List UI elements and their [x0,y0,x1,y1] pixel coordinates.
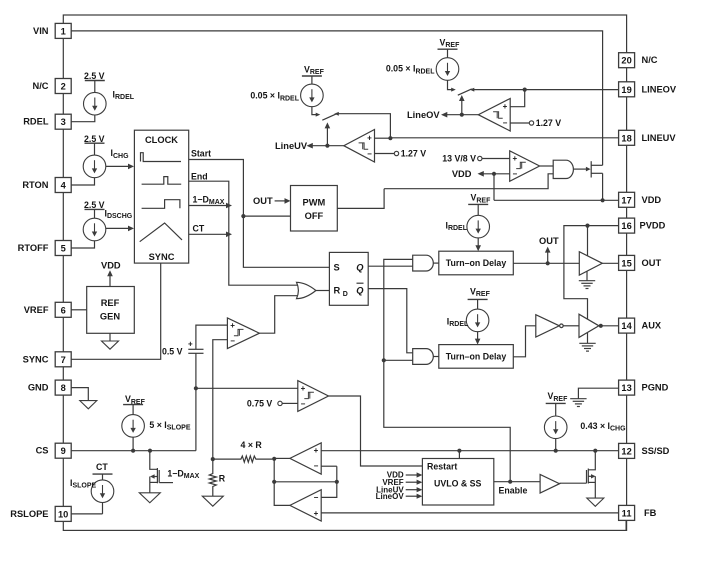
clock waveform start pulse [141,153,182,162]
pin 6 VREF [24,302,71,317]
wire LineOV comparator output [444,114,478,116]
svg-text:SYNC: SYNC [149,252,175,262]
wire ICHG arrow into CLOCK [106,164,134,170]
svg-text:−: − [503,119,508,128]
wire CT stub arrow [189,232,232,238]
svg-text:IDSCHG: IDSCHG [105,208,133,219]
wire UVLO top to SS/SD net [458,451,460,459]
wire Turn-on Delay 1 output to OUT driver [513,262,579,264]
switch for LineUV hysteresis current [312,107,339,121]
current source 0.05 x IRDEL (VREF) for LineOV [386,38,460,81]
UVLO & SS block [422,459,493,506]
svg-text:2.5 V: 2.5 V [84,134,105,144]
REF GEN block [87,287,135,334]
svg-text:Enable: Enable [499,486,528,496]
label OUT input to PWM OFF [253,196,291,206]
svg-text:1−DMAX: 1−DMAX [167,468,199,479]
pin 7 SYNC [23,352,72,367]
wire Enable output to buffer [494,481,540,483]
svg-text:+: + [230,321,235,330]
node ramp R junction [211,457,215,461]
wire AND output to startup MOSFET gate [574,168,587,170]
svg-text:GND: GND [28,383,49,393]
wire top error amp output to node [274,457,290,459]
wire LineOV plus input [510,90,525,107]
svg-text:11: 11 [622,508,632,518]
svg-text:OUT: OUT [253,196,273,206]
svg-text:UVLO & SS: UVLO & SS [434,479,482,489]
terminal 0.75 V [247,399,282,409]
wire bottom error amp plus to FB net [321,512,618,514]
wire error node vertical [274,459,290,506]
comparator PWM (0.5V hysteresis) [227,318,259,349]
node at AUX driver output [599,324,603,328]
svg-text:+: + [314,509,319,518]
svg-text:2.5 V: 2.5 V [84,71,105,81]
CLOCK block [134,130,188,263]
svg-text:14: 14 [621,321,632,331]
svg-text:3: 3 [61,117,66,127]
current source 0.43 x ICHG (VREF) [544,391,626,451]
svg-text:LINEOV: LINEOV [642,84,677,94]
clock output CT [193,224,205,234]
svg-text:S: S [334,263,340,273]
svg-text:Turn–on Delay: Turn–on Delay [446,352,507,362]
svg-text:FB: FB [644,508,657,518]
node SS charge source junction [554,449,558,453]
resistor R [209,459,226,496]
wire PVDD net from pin 16 [564,226,619,319]
svg-text:+: + [314,446,319,455]
svg-text:LineOV: LineOV [407,110,440,120]
svg-text:OFF: OFF [305,211,324,221]
pin 19 LINEOV [619,82,677,97]
node Enable to AND2 junction [382,358,386,362]
ground at GND pin [80,401,97,409]
wire VIN net from pin 1 to startup MOSFET drain [71,31,602,165]
svg-text:LINEUV: LINEUV [642,133,677,143]
pin 16 PVDD [619,218,666,233]
svg-text:D: D [343,291,348,298]
VDD supply arrow above REF GEN [101,260,121,286]
svg-text:8: 8 [61,383,66,393]
label LineUV input to UVLO [376,485,422,494]
wire Enable net to AND1 and AND2 [384,259,510,481]
label OUT net up arrow [539,236,559,263]
wire bottom border tie to pin 11 [625,521,627,531]
wire PWM comparator output to OR input [259,296,297,334]
svg-text:2: 2 [61,82,66,92]
current source IRDEL (2.5 V) at RDEL [84,71,135,115]
wire minus tie of error amps [274,466,337,497]
label VDD net arrow [452,169,484,179]
ground at PGND [570,399,586,407]
clock output Start [191,148,211,158]
wire VDD tap down to VDD rail [493,174,495,201]
svg-text:VIN: VIN [33,26,49,36]
svg-text:1.27 V: 1.27 V [401,149,427,159]
svg-text:−: − [512,170,517,179]
label VREF input to UVLO [382,478,422,487]
wire LineUV comparator output [310,145,344,147]
svg-text:LineOV: LineOV [376,492,405,501]
arrow LineUV controls switch [325,122,331,145]
transistor Q2 slope reset MOSFET [150,451,173,493]
wire VDD to comparator minus input [482,173,510,175]
svg-text:7: 7 [61,355,66,365]
svg-text:1: 1 [61,26,66,36]
svg-text:1−DMAX: 1−DMAX [193,194,225,205]
wire AUX driver to pin 14 [599,325,619,327]
inverter AUX [536,315,563,337]
current source ISLOPE (CT) at RSLOPE [70,462,114,514]
wire 0.75V terminal to comparator minus [282,402,298,404]
svg-text:0.43 × ICHG: 0.43 × ICHG [580,421,626,432]
svg-text:OUT: OUT [642,258,662,268]
pin 2 N/C [32,79,71,94]
transistor Q3 soft-stop MOSFET [587,451,596,498]
wire OR output to latch R [316,290,330,292]
wire LINEUV net pin 18 to comparator plus input [375,137,619,139]
clock output 1-Dmax [193,194,225,205]
svg-text:VREF: VREF [125,394,146,405]
svg-text:15: 15 [621,258,631,268]
svg-text:0.75 V: 0.75 V [247,399,273,409]
pin 11 FB [619,505,657,520]
node LineUV output tap [325,144,329,148]
wire LineUV minus input to 1.27 V terminal [375,153,395,155]
switch for LineOV hysteresis current [448,80,475,95]
op-amp error clamp bottom [290,490,321,521]
wire PGND pin 13 to ground [578,388,618,399]
wire AND2 to Turn-on Delay 2 [433,356,439,358]
comparator LineOV (hysteresis) [478,99,510,132]
wire AND1 to Turn-on Delay 1 [433,262,439,264]
pin 4 RTON [22,178,71,193]
clock waveform end pulse [142,177,182,185]
wire switch to LineUV comparator plus node [339,114,391,139]
svg-text:IRDEL: IRDEL [445,220,467,231]
svg-text:0.05 × IRDEL: 0.05 × IRDEL [250,91,299,102]
svg-text:16: 16 [621,221,631,231]
wire switch to LINEOV net and pin 19 [474,89,619,91]
svg-text:GEN: GEN [100,311,120,321]
pin 13 PGND [619,380,669,395]
clock waveform 1-Dmax [142,200,180,209]
node VDD tap at comparator minus [492,172,496,176]
clock output End [191,171,208,181]
svg-text:SS/SD: SS/SD [642,446,670,456]
latch SR [329,252,368,305]
comparator overcurrent 0.75V (hysteresis) [298,381,329,412]
AND gate U4 (OUT) [413,255,434,271]
wire 13V/8V to comparator plus [482,158,510,160]
svg-text:20: 20 [621,56,631,66]
wire LineOV minus input to 1.27 V terminal [510,122,529,124]
node feedback tie junction [272,480,276,484]
svg-text:12: 12 [621,446,631,456]
label LineOV input to UVLO [376,492,423,501]
pin 14 AUX [619,318,662,333]
node VDD rail / startup source junction [601,198,605,202]
wire pin 5 to IDSCHG source [71,241,94,248]
wire comparator minus to ramp node [213,340,228,459]
node PVDD to OUT driver supply [585,224,589,228]
svg-text:4 × R: 4 × R [241,440,263,450]
AND gate U3 (startup) [553,160,573,178]
svg-text:18: 18 [621,133,631,143]
svg-text:IRDEL: IRDEL [113,90,135,101]
wire CS tap to 0.75V comparator plus [196,387,298,389]
wire OUT driver to pin 15 [602,262,618,264]
svg-text:R: R [334,286,341,296]
node error amp output junction [272,457,276,461]
node LineOV plus junction [523,88,527,92]
comparator VDD 13V/8V (hysteresis) [510,151,540,182]
terminal 1.27 V (LineOV) [529,118,561,128]
svg-text:VREF: VREF [440,38,461,49]
wire SYNC pin to CLOCK bottom [71,263,161,359]
AND gate U5 (AUX) [413,349,434,365]
svg-text:IRDEL: IRDEL [447,316,469,327]
transistor Q1 startup pass FET [586,161,603,200]
svg-text:+: + [512,154,517,163]
node CS tap junction [194,386,198,390]
ground below slope MOSFET [139,493,160,503]
op-amp error clamp top [290,443,321,474]
current source IRDEL (VREF) above Turn-on Delay 1 [445,193,491,252]
terminal 13 V / 8 V [442,154,482,164]
svg-text:CT: CT [193,224,205,234]
pin 3 RDEL [23,114,71,129]
wire buffer to SS MOSFET gate [560,482,587,484]
wire latch Q to AND1 input [368,265,413,267]
current source IDSCHG (2.5 V) at RTOFF [83,200,133,241]
wire 1-Dmax stub arrow [189,203,232,209]
svg-text:CLOCK: CLOCK [145,135,178,145]
node Enable tap junction [508,480,512,484]
node UVLO to SS junction [457,449,461,453]
svg-text:5: 5 [61,244,66,254]
Turn-on Delay 2 block [439,345,514,369]
current source 5 x ISLOPE (VREF) [122,394,191,451]
wire Start net to latch S input [189,160,330,268]
wire VDD rail to pin 17 [494,199,619,201]
svg-text:VDD: VDD [452,169,472,179]
label Enable [499,486,528,496]
capacitor 0.5 V offset [162,339,204,356]
ground below SS MOSFET [587,498,604,506]
label 1-Dmax at slope MOSFET [167,468,199,479]
buffer Enable driver [540,475,559,494]
svg-text:17: 17 [621,195,631,205]
node LineUV plus input junction [388,136,392,140]
svg-text:ICHG: ICHG [111,148,130,159]
wire Start tap to PWM OFF lower input [243,215,290,217]
wire pin 6 to REF GEN [71,309,87,311]
node LineOV output tap [460,113,464,117]
wire IDSCHG arrow into CLOCK [106,226,134,232]
svg-text:−: − [314,462,319,471]
svg-text:Restart: Restart [427,462,457,472]
svg-text:9: 9 [61,446,66,456]
svg-text:+: + [301,384,306,393]
wire pin 3 to IRDEL source [71,115,95,122]
svg-text:OUT: OUT [539,236,559,246]
wire CS net from pin 9 [71,450,196,452]
pin 9 CS [36,443,72,458]
svg-text:VDD: VDD [642,195,662,205]
buffer OUT driver [579,252,602,275]
OR gate U2 (reset) [297,282,316,298]
wire 0.75V comparator output to UVLO restart [329,396,423,466]
svg-text:Q: Q [356,263,364,273]
Turn-on Delay 1 block [439,251,514,275]
pin 12 SS/SD [619,443,670,458]
pin 18 LINEUV [619,130,677,145]
pin 15 OUT [619,255,662,270]
svg-text:REF: REF [101,298,120,308]
svg-text:Turn–on Delay: Turn–on Delay [446,258,507,268]
buffer AUX driver [579,314,599,337]
ground below AUX driver [579,333,595,351]
wire pin 4 to ICHG source [71,178,94,185]
svg-text:VREF: VREF [304,65,325,76]
node SS MOSFET drain junction [593,449,597,453]
svg-text:N/C: N/C [642,55,658,65]
label VDD input to UVLO [387,471,423,480]
comparator LineUV (hysteresis) [344,130,375,163]
pin 8 GND [28,380,71,395]
svg-text:19: 19 [621,85,631,95]
terminal 1.27 V (LineUV) [394,149,426,159]
svg-text:Q: Q [356,286,364,296]
node OUT net label tap [546,261,550,265]
svg-text:SYNC: SYNC [23,354,49,364]
svg-text:10: 10 [58,509,68,519]
svg-text:R: R [219,474,226,484]
svg-text:+: + [367,133,372,142]
PWM OFF block [291,186,338,232]
wire pin 10 to ISLOPE source [71,513,102,515]
arrow LineOV controls switch [459,95,465,115]
wire latch Qbar to AND2 input [368,289,413,353]
svg-text:+: + [188,339,193,348]
svg-text:CS: CS [36,446,49,456]
svg-text:PVDD: PVDD [640,221,666,231]
wire PWM OFF signal to AND lower input [384,174,553,189]
svg-text:CT: CT [96,462,108,472]
svg-text:AUX: AUX [642,321,662,331]
ground below OUT driver [579,271,595,288]
svg-text:4: 4 [61,181,67,191]
pin 17 VDD [619,192,662,207]
svg-text:N/C: N/C [32,81,48,91]
ground below resistor R [202,496,223,506]
svg-text:RTOFF: RTOFF [18,243,49,253]
wire CS through cap to comparator plus [196,325,228,451]
svg-text:−: − [314,493,319,502]
pin 1 VIN [33,23,71,38]
svg-text:VREF: VREF [548,391,569,402]
svg-text:13: 13 [621,383,631,393]
pin 20 N/C [619,53,658,68]
svg-text:Start: Start [191,148,211,158]
svg-text:VREF: VREF [24,305,49,315]
node Start net tap to PWM OFF [241,214,245,218]
IC package border [63,15,626,530]
svg-text:RDEL: RDEL [23,117,49,127]
svg-text:ISLOPE: ISLOPE [70,478,97,489]
svg-text:−: − [301,400,306,409]
svg-text:VDD: VDD [101,260,121,270]
svg-text:13 V/8 V: 13 V/8 V [442,154,476,164]
wire comparator output to AND input [540,165,554,167]
label LineOV output arrow [407,110,447,120]
svg-text:0.05 × IRDEL: 0.05 × IRDEL [386,64,435,75]
node CS to slope source [131,449,135,453]
svg-text:6: 6 [61,305,66,315]
wire Turn-on Delay 2 output to inverter [513,326,536,357]
svg-text:−: − [367,150,372,159]
node error amp minus tie junction [335,480,339,484]
node CS to DMAX switch [148,449,152,453]
svg-text:1.27 V: 1.27 V [536,118,562,128]
wire inverter to AUX driver [563,325,579,327]
svg-text:LineUV: LineUV [275,141,308,151]
current source IRDEL (VREF) above Turn-on Delay 2 [447,286,491,344]
clock waveform CT triangle [140,223,182,242]
svg-text:2.5 V: 2.5 V [84,200,105,210]
svg-text:+: + [503,102,508,111]
ground below REF GEN [102,333,119,349]
current source 0.05 x IRDEL (VREF) for LineUV [250,65,324,107]
current source ICHG (2.5 V) at RTON [83,134,129,178]
wire GND pin to ground [71,388,88,401]
label LineUV output arrow [275,141,313,151]
wire top error amp plus to SS/SD net [321,450,618,452]
pin 5 RTOFF [18,241,72,256]
wire End net to OR gate [189,181,298,285]
svg-text:PGND: PGND [642,383,669,393]
pin 10 RSLOPE [10,506,71,521]
svg-text:End: End [191,171,208,181]
resistor 4 x R [213,440,272,462]
svg-text:RSLOPE: RSLOPE [10,509,48,519]
svg-text:VREF: VREF [470,286,491,297]
wire PVDD into OUT driver top [587,226,589,257]
svg-text:PWM: PWM [303,198,326,208]
svg-text:VREF: VREF [471,193,492,204]
wire PWM OFF output [337,189,384,209]
svg-text:−: − [230,337,235,346]
svg-text:5 × ISLOPE: 5 × ISLOPE [149,420,190,431]
svg-text:0.5 V: 0.5 V [162,347,183,357]
svg-text:RTON: RTON [22,180,48,190]
